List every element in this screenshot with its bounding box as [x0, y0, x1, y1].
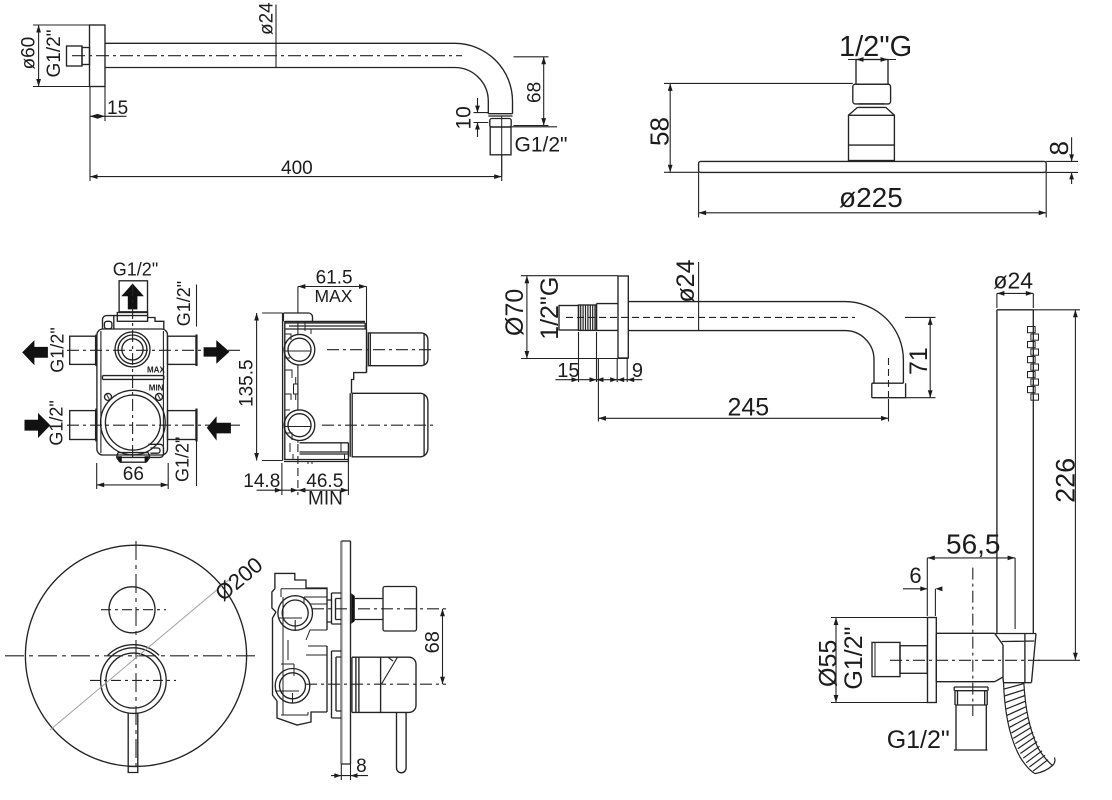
- arm centerline: [72, 55, 462, 57]
- head disc o225: [699, 161, 1047, 172]
- top band: [285, 321, 367, 329]
- wall pipe: [900, 646, 927, 674]
- lever rod side: [397, 712, 407, 772]
- handle cut: [382, 657, 398, 684]
- plaster band: [103, 376, 164, 380]
- svg-text:135.5: 135.5: [237, 359, 258, 407]
- arm tube: [105, 43, 513, 116]
- FIG3 mixer rough-in front view: [22, 260, 240, 490]
- svg-text:10: 10: [453, 106, 476, 129]
- bracket body: [936, 633, 1003, 681]
- centerline vertical: [132, 284, 134, 459]
- FIG6 hand shower set: [815, 268, 1081, 774]
- screw right: [156, 393, 163, 400]
- svg-text:58: 58: [645, 117, 675, 146]
- centerline horizontal: [5, 655, 258, 657]
- svg-text:66: 66: [123, 464, 144, 485]
- svg-text:6: 6: [909, 563, 921, 588]
- svg-text:G1/2": G1/2": [48, 327, 68, 372]
- dim 66: [97, 463, 169, 489]
- centerline: [566, 316, 855, 318]
- handle rosette inner: [106, 653, 161, 708]
- diverter knob: [383, 587, 417, 632]
- stub upper-left G1/2: [70, 336, 96, 364]
- shoulder: [114, 316, 164, 329]
- top port rings: [115, 332, 150, 367]
- leader line right top: [196, 285, 198, 327]
- top cap block: [283, 313, 312, 321]
- svg-text:ø60: ø60: [19, 37, 40, 70]
- down tube axis: [501, 116, 503, 177]
- svg-text:G1/2": G1/2": [44, 30, 65, 78]
- step under pipe: [352, 366, 367, 394]
- cartridge top stack: [327, 593, 341, 630]
- centerline knob: [101, 609, 166, 611]
- spout tube: [628, 302, 903, 384]
- svg-text:Ø200: Ø200: [210, 552, 267, 606]
- dim o225: [699, 172, 1047, 217]
- handle rosette side: [352, 657, 381, 712]
- svg-text:MIN: MIN: [149, 384, 164, 393]
- FIG7 trim plate front view: [5, 541, 267, 773]
- flow arrow left-in: [25, 413, 51, 438]
- svg-text:G1/2": G1/2": [47, 400, 67, 445]
- hand shower handle: [997, 310, 1033, 633]
- svg-text:G1/2": G1/2": [113, 260, 158, 280]
- handle centerline: [305, 683, 446, 685]
- dim 6: [903, 586, 942, 616]
- dim 61.5 MAX: [298, 284, 367, 329]
- svg-text:71: 71: [905, 347, 933, 375]
- svg-text:245: 245: [728, 394, 770, 422]
- nut: [853, 84, 891, 104]
- port circle top: [284, 334, 315, 365]
- dim 68: [440, 609, 445, 684]
- pipe behind wall: [597, 304, 619, 331]
- dim o24: [698, 262, 700, 331]
- mounting black block: [351, 593, 355, 624]
- trim plate slab: [340, 541, 342, 764]
- leader o200: [50, 578, 231, 730]
- centerline bottom cylinder: [322, 424, 434, 426]
- wall flange: [90, 25, 106, 87]
- cartridge rings: [101, 390, 166, 455]
- svg-text:1/2"G: 1/2"G: [839, 31, 912, 63]
- dim 226: [1033, 310, 1080, 661]
- port circle bottom: [275, 669, 310, 704]
- bracket centerline horizontal: [890, 659, 1042, 661]
- rosette top flange arc: [108, 645, 159, 656]
- small latch between ports: [294, 377, 298, 400]
- dim 135.5: [254, 313, 282, 461]
- dim 68: [514, 57, 549, 126]
- dim o55: [831, 618, 928, 703]
- screw left: [105, 393, 112, 400]
- knurl zipper: [1028, 327, 1039, 401]
- dim 8: [1046, 137, 1078, 184]
- top collar: [117, 313, 147, 322]
- arm end nut: [490, 119, 511, 128]
- svg-text:56,5: 56,5: [946, 529, 1001, 560]
- knob stem: [355, 599, 383, 620]
- lower cylinder: [350, 393, 428, 457]
- dim 1/2G: [848, 57, 896, 62]
- dim 400: [90, 155, 502, 181]
- svg-text:ø225: ø225: [839, 182, 903, 213]
- lever rod: [128, 713, 138, 773]
- thread plain part: [559, 306, 579, 331]
- diverter knob circle: [109, 587, 155, 633]
- thread pipe 1/2G: [856, 60, 888, 85]
- svg-text:226: 226: [1051, 458, 1081, 503]
- wall plane line: [297, 321, 299, 442]
- ball joint cylinder: [849, 115, 895, 160]
- svg-text:MIN: MIN: [308, 489, 343, 510]
- body inner wall lines: [101, 331, 163, 453]
- flex hose: [1004, 682, 1055, 774]
- thread stub G1/2: [67, 46, 83, 66]
- svg-text:MAX: MAX: [315, 286, 353, 306]
- dim o70: [521, 276, 628, 359]
- port circle bottom: [284, 410, 315, 441]
- leader line right bottom: [196, 442, 198, 487]
- valve body outline: [272, 573, 327, 725]
- stub lower-right G1/2: [168, 411, 197, 440]
- svg-text:68: 68: [525, 82, 546, 103]
- svg-text:ø24: ø24: [257, 2, 278, 35]
- bottom foot: [117, 453, 150, 463]
- svg-text:Ø55: Ø55: [815, 640, 843, 687]
- dim 10: [474, 98, 489, 137]
- FIG8 mixer with trim side view: [272, 541, 446, 780]
- body outline: [97, 329, 168, 455]
- svg-text:G1/2": G1/2": [840, 627, 868, 690]
- arm end thread: [490, 127, 511, 155]
- bottom shelf: [284, 443, 348, 462]
- FIG2 rain shower head: [645, 31, 1079, 218]
- handle rosette outer: [101, 648, 167, 714]
- dim 71: [905, 317, 936, 397]
- centerline top pipe: [327, 349, 434, 351]
- flow arrow up: [121, 284, 144, 310]
- plate circle o200: [25, 545, 246, 766]
- svg-text:G1/2": G1/2": [173, 437, 193, 482]
- thread textured part: [579, 305, 597, 330]
- dim o24 handle: [997, 291, 1033, 308]
- label G1/2 end: [512, 126, 558, 128]
- stub lower-left G1/2: [70, 411, 96, 440]
- port circle top: [278, 596, 313, 631]
- flow arrow right-in: [207, 416, 231, 440]
- svg-text:400: 400: [281, 158, 313, 179]
- wall thread stub: [872, 642, 900, 676]
- centerline bottom ports: [67, 424, 240, 426]
- FIG1 shower arm: [19, 2, 568, 181]
- flow arrow right-out: [204, 340, 230, 364]
- bottom-right port: [148, 444, 163, 457]
- wall body left edge: [283, 313, 285, 461]
- body inner structure: [281, 589, 327, 715]
- svg-text:15: 15: [557, 360, 579, 382]
- svg-text:14.8: 14.8: [243, 471, 280, 492]
- cartridge bottom stack: [327, 646, 341, 718]
- holder cup: [996, 634, 1037, 684]
- top outlet stub: [119, 281, 147, 312]
- knob centerline: [312, 608, 446, 610]
- dim o24: [275, 5, 277, 69]
- spout end cap: [872, 383, 906, 398]
- svg-text:G1/2": G1/2": [887, 726, 950, 754]
- svg-text:Ø70: Ø70: [501, 289, 529, 336]
- handle barrel: [381, 657, 416, 712]
- dim 8 plate: [331, 764, 368, 780]
- hose nipple: [954, 705, 988, 750]
- svg-text:68: 68: [422, 631, 444, 653]
- left ear: [103, 316, 114, 330]
- dim 15: [90, 87, 127, 182]
- FIG5 wall spout: [501, 259, 936, 421]
- svg-text:8: 8: [1044, 141, 1074, 155]
- dim 58: [664, 83, 853, 172]
- svg-text:9: 9: [632, 360, 643, 382]
- flow arrow left-out: [22, 340, 48, 365]
- FIG4 mixer rough-in side view: [237, 268, 435, 510]
- centerline top ports: [67, 349, 240, 351]
- svg-text:8: 8: [356, 756, 367, 777]
- svg-text:ø24: ø24: [672, 259, 700, 302]
- stub upper-right G1/2: [168, 336, 197, 364]
- upper pipe stub: [368, 333, 428, 366]
- svg-text:ø24: ø24: [993, 268, 1033, 294]
- thread neck: [82, 48, 90, 65]
- centerline vertical: [135, 541, 137, 773]
- dim 245: [598, 359, 888, 422]
- taper joint: [849, 104, 895, 115]
- body right edge upper: [366, 329, 368, 373]
- svg-text:G1/2": G1/2": [515, 134, 568, 157]
- flange escutcheon: [618, 276, 628, 358]
- dim 14.8 46.5: [257, 444, 349, 495]
- svg-text:MAX: MAX: [147, 366, 165, 375]
- castellation details: [285, 321, 345, 464]
- dim 15 and 9: [555, 332, 642, 382]
- centerline rosette: [90, 679, 176, 681]
- dim 56,5: [927, 556, 1015, 630]
- dim o60: [33, 25, 90, 87]
- wall flange: [928, 618, 937, 703]
- svg-text:15: 15: [107, 98, 128, 119]
- svg-text:1/2"G: 1/2"G: [536, 277, 564, 340]
- svg-text:G1/2": G1/2": [174, 281, 194, 326]
- hose nut: [954, 687, 988, 705]
- bracket centerline vertical: [972, 568, 974, 716]
